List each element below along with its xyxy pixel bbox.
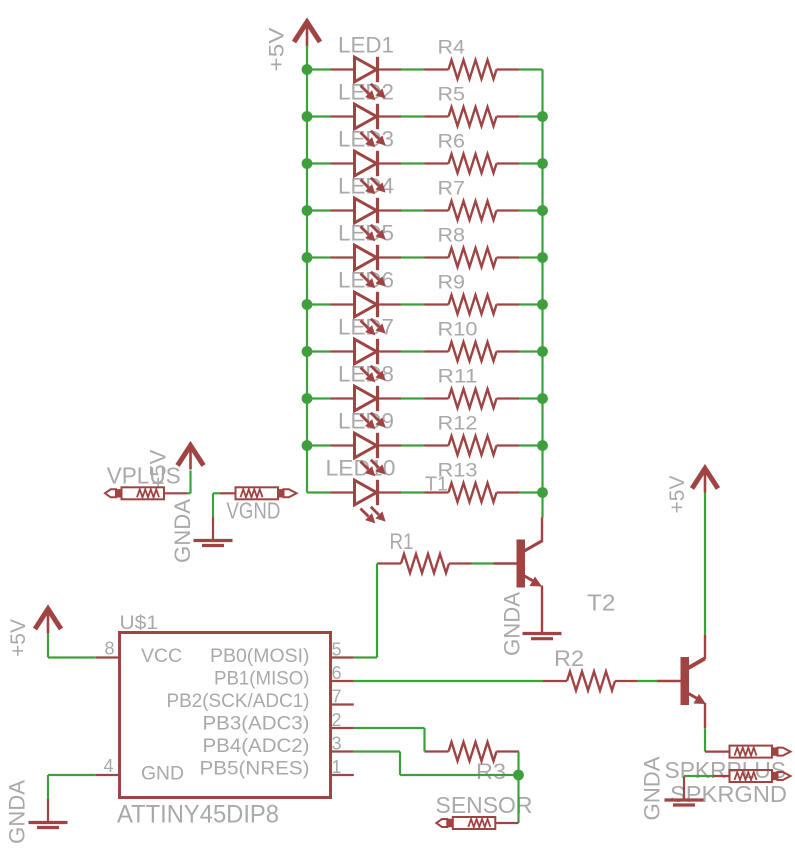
junction right rail row 2: [537, 111, 548, 122]
svg-text:GNDA: GNDA: [500, 592, 525, 656]
junction right rail row 5: [537, 252, 548, 263]
svg-text:+5V: +5V: [7, 619, 30, 657]
resistor R10: [425, 350, 449, 352]
svg-text:LED1: LED1: [338, 33, 394, 58]
pin 5 stub: [331, 656, 354, 658]
LED LED8 emission arrows: [361, 415, 369, 423]
LED LED8 diode symbol: [331, 397, 354, 399]
power +5V symbol VPLUS: [178, 446, 204, 466]
wire pin 3 to sensor node: [400, 774, 519, 776]
junction left rail row 2: [302, 111, 313, 122]
LED LED9 emission arrows: [361, 462, 369, 470]
ground symbol SPKRGND: [683, 777, 685, 800]
collector pin T1: [541, 518, 543, 542]
ground symbol pin 4: [47, 799, 49, 822]
LED LED7 emission arrows: [361, 368, 369, 376]
svg-text:8: 8: [104, 639, 114, 659]
power +5V symbol T2 collector: [692, 469, 718, 489]
wire R3 down to node: [517, 752, 519, 776]
resistor R2: [543, 680, 567, 682]
wire LED4 to R7: [401, 209, 425, 211]
wire ground to pin 4: [48, 774, 96, 776]
svg-text:LED10: LED10: [326, 456, 396, 481]
LED LED1 emission arrows: [361, 86, 369, 94]
svg-text:R10: R10: [438, 320, 478, 341]
IC U$1 ATTINY45DIP8 body: [120, 633, 331, 798]
svg-text:+5V: +5V: [266, 27, 289, 71]
LED LED6 emission arrows: [361, 321, 369, 329]
wire LED6 to R9: [401, 303, 425, 305]
svg-text:R8: R8: [438, 226, 466, 247]
connector pad SPKRPLUS: [778, 748, 791, 756]
LED LED3 diode symbol: [331, 162, 354, 164]
wire up to +5V symbol: [189, 471, 191, 494]
junction left rail row 4: [302, 205, 313, 216]
junction right rail row 6: [537, 299, 548, 310]
svg-text:PB1(MISO): PB1(MISO): [214, 669, 310, 690]
ground symbol T1 emitter: [523, 632, 562, 635]
transistor T1 (NPN): [517, 540, 526, 588]
junction right rail row 9: [537, 440, 548, 451]
T1 collector diagonal: [524, 541, 543, 552]
pin 8 stub (VCC): [96, 656, 120, 658]
junction right rail row 8: [537, 393, 548, 404]
svg-text:GNDA: GNDA: [170, 499, 195, 563]
svg-text:R5: R5: [438, 85, 466, 106]
wire +5V down to T2 collector: [704, 493, 706, 636]
svg-text:PB2(SCK/ADC1): PB2(SCK/ADC1): [167, 691, 310, 712]
resistor R3: [425, 750, 449, 752]
LED LED2 diode symbol: [331, 115, 354, 117]
wire pin 2 down to R3: [423, 728, 425, 752]
resistor R5: [425, 115, 449, 117]
wire R11 to right rail: [519, 397, 543, 399]
connector pad VPLUS: [105, 489, 116, 497]
resistor R11: [425, 397, 449, 399]
pin SPKRPLUS pad: [705, 750, 730, 752]
pin VGND pad: [220, 492, 236, 494]
svg-text:GNDA: GNDA: [5, 780, 30, 844]
pin SENSOR pad: [495, 822, 518, 824]
svg-text:4: 4: [103, 756, 113, 776]
LED LED2 emission arrows: [361, 133, 369, 141]
svg-text:+5V: +5V: [666, 476, 689, 514]
base pin T1: [494, 562, 517, 564]
base pin T2: [658, 680, 681, 682]
wire rail to LED4: [307, 209, 331, 211]
wire R1 down to pin5 row: [376, 564, 378, 658]
wire rail to LED5: [307, 256, 331, 258]
wire right rail vertical down to T1 collector: [541, 70, 543, 518]
wire pin 6 to R2: [354, 680, 543, 682]
svg-text:PB0(MOSI): PB0(MOSI): [210, 646, 310, 667]
wire R12 to right rail: [519, 444, 543, 446]
wire VPLUS to +5V: [187, 492, 191, 494]
LED LED10 diode symbol: [331, 491, 354, 493]
pin 6 stub: [331, 680, 354, 682]
wire pin 3 down: [399, 752, 401, 776]
svg-text:ATTINY45DIP8: ATTINY45DIP8: [117, 801, 279, 829]
pin 4 stub (GND): [96, 774, 120, 776]
wire LED9 to R12: [401, 444, 425, 446]
svg-text:T2: T2: [587, 590, 616, 616]
wire R2 to T2 base: [637, 680, 658, 682]
svg-text:VCC: VCC: [141, 646, 182, 667]
junction left rail row 3: [302, 158, 313, 169]
svg-text:R11: R11: [438, 367, 478, 388]
LED LED7 diode symbol: [331, 350, 354, 352]
wire rail to LED7: [307, 350, 331, 352]
resistor R12: [425, 444, 449, 446]
wire to IC pin 5: [354, 656, 377, 658]
svg-text:R4: R4: [438, 38, 466, 59]
pin 1 stub: [331, 774, 354, 776]
wire left +5V rail vertical: [306, 46, 308, 493]
pin VPLUS pad: [164, 492, 187, 494]
svg-text:PB4(ADC2): PB4(ADC2): [203, 736, 310, 757]
resistor R13: [425, 491, 449, 493]
svg-text:R1: R1: [390, 529, 414, 554]
svg-text:U$1: U$1: [120, 613, 159, 634]
wire up to +5V symbol (pin8): [47, 633, 49, 658]
connector pad SPKRGND: [778, 772, 791, 780]
wire rail to LED3: [307, 162, 331, 164]
LED LED9 diode symbol: [331, 444, 354, 446]
LED LED6 diode symbol: [331, 303, 354, 305]
junction left rail row 7: [302, 346, 313, 357]
junction left rail row 1: [302, 64, 313, 75]
junction left rail row 5: [302, 252, 313, 263]
svg-text:PB3(ADC3): PB3(ADC3): [203, 714, 310, 735]
svg-text:R9: R9: [438, 273, 466, 294]
LED LED5 emission arrows: [361, 274, 369, 282]
pin 2 stub: [331, 727, 354, 729]
wire R8 to right rail: [519, 256, 543, 258]
wire R7 to right rail: [519, 209, 543, 211]
wire pin 2 right: [354, 727, 425, 729]
wire R10 to right rail: [519, 350, 543, 352]
junction left rail row 8: [302, 393, 313, 404]
wire LED2 to R5: [401, 115, 425, 117]
resistor R6: [425, 162, 449, 164]
pin 3 stub: [331, 750, 354, 752]
connector pad VGND: [284, 489, 297, 497]
svg-text:SPKRGND: SPKRGND: [670, 781, 787, 807]
power +5V symbol pin 8: [35, 609, 61, 629]
junction right rail row 10: [537, 487, 548, 498]
junction right rail row 4: [537, 205, 548, 216]
power +5V symbol top rail: [294, 22, 320, 42]
junction left rail row 6: [302, 299, 313, 310]
resistor R4: [425, 68, 449, 70]
LED LED4 emission arrows: [361, 227, 369, 235]
wire R6 to right rail: [519, 162, 543, 164]
wire R1 to T1 base: [472, 562, 494, 564]
wire rail to LED2: [307, 115, 331, 117]
junction left rail row 9: [302, 440, 313, 451]
junction right rail row 7: [537, 346, 548, 357]
ground symbol VGND: [212, 517, 214, 540]
wire rail to LED1: [307, 68, 331, 70]
junction sensor node: [513, 770, 524, 781]
wire LED7 to R10: [401, 350, 425, 352]
emitter pin T2: [704, 703, 706, 728]
resistor R8: [425, 256, 449, 258]
connector pad SENSOR: [436, 819, 447, 827]
wire SPKRGND to ground: [684, 775, 713, 777]
resistor R9: [425, 303, 449, 305]
wire rail to LED10: [307, 491, 331, 493]
wire VGND down to ground: [212, 493, 214, 517]
collector pin T2: [704, 635, 706, 659]
LED LED10 emission arrows: [361, 509, 369, 517]
wire LED8 to R11: [401, 397, 425, 399]
emitter wire T1 to ground: [541, 586, 543, 633]
svg-text:PB5(NRES): PB5(NRES): [200, 759, 310, 780]
wire VGND pad: [213, 492, 220, 494]
svg-text:+5V: +5V: [146, 449, 171, 489]
LED LED4 diode symbol: [331, 209, 354, 211]
svg-text:GND: GND: [141, 764, 184, 785]
LED LED1 diode symbol: [331, 68, 354, 70]
wire pin 3 right: [354, 750, 400, 752]
wire +5V to pin 8: [48, 656, 96, 658]
wire row1 to right rail: [519, 68, 543, 70]
T2 collector diagonal: [688, 658, 706, 668]
wire node down to SENSOR: [517, 775, 519, 823]
LED LED3 emission arrows: [361, 180, 369, 188]
svg-text:R6: R6: [438, 132, 466, 153]
resistor R1: [377, 562, 401, 564]
resistor R7: [425, 209, 449, 211]
wire R9 to right rail: [519, 303, 543, 305]
transistor T2 (NPN): [681, 657, 690, 705]
svg-text:R7: R7: [438, 179, 466, 200]
pin SPKRGND pad: [713, 775, 730, 777]
LED LED5 diode symbol: [331, 256, 354, 258]
pin 7 stub: [331, 703, 354, 705]
svg-text:R2: R2: [554, 646, 584, 671]
wire down to ground (pin4): [47, 775, 49, 799]
wire rail to LED6: [307, 303, 331, 305]
wire LED10 to R13: [401, 491, 425, 493]
wire rail to LED9: [307, 444, 331, 446]
svg-text:VGND: VGND: [226, 497, 280, 523]
wire LED1 to R4: [401, 68, 425, 70]
wire R5 to right rail: [519, 115, 543, 117]
svg-text:R3: R3: [476, 759, 506, 784]
wire LED5 to R8: [401, 256, 425, 258]
wire R13 to right rail: [519, 491, 543, 493]
wire LED3 to R6: [401, 162, 425, 164]
wire rail to LED8: [307, 397, 331, 399]
svg-text:GNDA: GNDA: [640, 756, 665, 820]
junction right rail row 3: [537, 158, 548, 169]
svg-text:R12: R12: [438, 414, 478, 435]
wire T2 emitter down: [704, 728, 706, 751]
